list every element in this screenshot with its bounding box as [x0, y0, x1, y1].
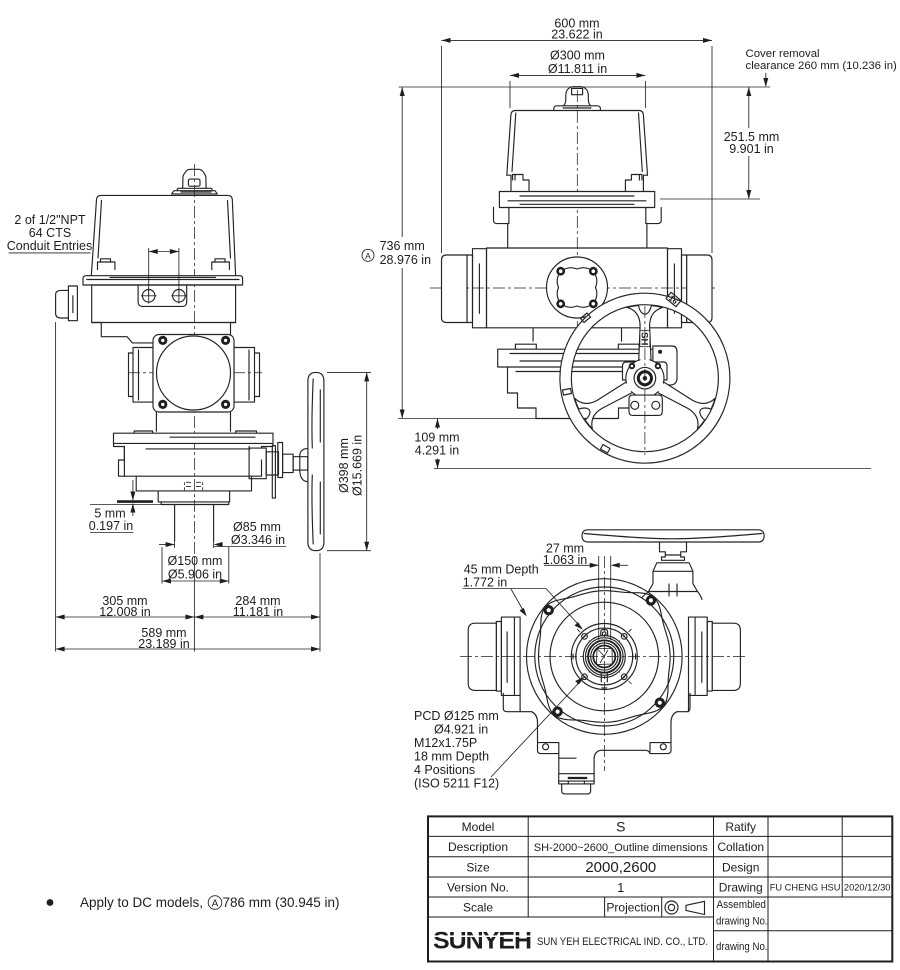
svg-text:2 of 1/2"NPT: 2 of 1/2"NPT [14, 213, 86, 227]
main housing circles [527, 579, 683, 735]
dim 85 [174, 541, 176, 548]
left conduit boss [68, 286, 77, 321]
dashed key area [184, 482, 202, 491]
4 cover bolts [544, 605, 554, 615]
right cylinder [689, 617, 708, 695]
gearbox body [114, 443, 273, 476]
150 spigot [161, 502, 230, 505]
svg-text:Ø300 mm: Ø300 mm [550, 49, 605, 63]
flange band under bell [83, 276, 243, 285]
keyway at top [601, 630, 608, 642]
svg-text:Model: Model [462, 820, 495, 834]
svg-text:Ratify: Ratify [725, 820, 756, 834]
bottom left foot [503, 693, 531, 711]
svg-text:Ø5.906 in: Ø5.906 in [168, 568, 222, 582]
svg-text:Scale: Scale [463, 901, 493, 915]
vertical centerline [603, 556, 605, 771]
dim 600mm [441, 46, 443, 253]
svg-text:1: 1 [617, 880, 624, 895]
svg-text:18 mm Depth: 18 mm Depth [414, 750, 489, 764]
neck below square flange [156, 412, 230, 431]
svg-text:clearance 260 mm (10.236 in): clearance 260 mm (10.236 in) [746, 60, 898, 72]
rim notches [581, 313, 591, 323]
svg-text:PCD Ø125 mm: PCD Ø125 mm [414, 709, 499, 723]
svg-text:9.901 in: 9.901 in [729, 142, 774, 156]
top plug [564, 87, 591, 106]
BOTTOM VIEW [414, 530, 764, 794]
svg-text:Assembled: Assembled [717, 899, 767, 911]
svg-text:11.181 in: 11.181 in [233, 605, 284, 619]
svg-text:109 mm: 109 mm [414, 431, 459, 445]
keyway bottom tab [601, 672, 607, 682]
16 mark on rim [665, 292, 681, 307]
handwheel rim [560, 293, 730, 463]
centerline vertical [193, 164, 195, 560]
svg-text:1.772 in: 1.772 in [463, 576, 508, 590]
dim 398 vertical [327, 371, 371, 373]
svg-text:(ISO 5211 F12): (ISO 5211 F12) [414, 777, 499, 791]
dim 305 / 284 [55, 322, 57, 652]
flange corner bolts [158, 336, 167, 345]
svg-text:Ø3.346 in: Ø3.346 in [231, 533, 285, 547]
cover removal clearance line [399, 86, 770, 88]
dim 150 [161, 547, 163, 584]
svg-text:Design: Design [722, 860, 759, 874]
handwheel mounting boss behind [653, 346, 677, 385]
conduit bolts [142, 290, 155, 303]
svg-text:A: A [212, 899, 219, 910]
ISO square mounting flange [153, 335, 234, 413]
NOTE [47, 895, 340, 910]
top plug [183, 169, 206, 188]
5mm thick pointer line [117, 500, 153, 503]
svg-text:FU CHENG HSU: FU CHENG HSU [770, 883, 841, 893]
right cylinder section [668, 249, 682, 328]
RIGHT TOP VIEW [362, 17, 897, 469]
projection symbol [665, 901, 678, 914]
wheel spokes [575, 306, 715, 429]
svg-text:SH: SH [638, 332, 649, 345]
bottom right foot [677, 693, 690, 711]
svg-text:Ø4.921 in: Ø4.921 in [434, 723, 488, 737]
svg-text:64 CTS: 64 CTS [29, 226, 71, 240]
svg-text:Ø150 mm: Ø150 mm [168, 554, 223, 568]
ISO flange boss [571, 624, 637, 690]
conduit entry plate [138, 286, 187, 307]
svg-text:M12x1.75P: M12x1.75P [414, 736, 477, 750]
bottom stub [559, 774, 594, 781]
tick marks on PCD circle [573, 654, 636, 688]
svg-text:SUNYEH: SUNYEH [433, 928, 531, 955]
svg-text:SH-2000~2600_Outline dimension: SH-2000~2600_Outline dimensions [534, 842, 708, 854]
svg-text:Description: Description [448, 840, 508, 854]
svg-text:drawing No.: drawing No. [716, 941, 768, 953]
bracket plate behind hub [623, 362, 668, 380]
main body [92, 285, 236, 323]
gearbox top flange [114, 433, 274, 443]
svg-text:0.197 in: 0.197 in [89, 519, 134, 533]
svg-text:Cover removal: Cover removal [746, 48, 820, 60]
inner housing circle [550, 602, 659, 711]
svg-text:Drawing: Drawing [719, 881, 763, 895]
svg-text:Projection: Projection [606, 901, 659, 915]
right side boss of square flange [234, 348, 255, 403]
svg-text:Apply to DC models,: Apply to DC models, [80, 895, 203, 910]
lower bracket plate [629, 395, 662, 415]
svg-text:Conduit Entries: Conduit Entries [7, 239, 92, 253]
svg-text:S: S [616, 818, 625, 834]
svg-text:23.622 in: 23.622 in [551, 28, 602, 42]
wheel dashed centerline [644, 306, 646, 455]
85 shaft [175, 505, 214, 542]
svg-text:Ø85 mm: Ø85 mm [233, 520, 281, 534]
bolts beside hub [629, 363, 635, 369]
svg-text:45 mm Depth: 45 mm Depth [464, 563, 539, 577]
vertical centerline [576, 90, 578, 346]
svg-text:28.976 in: 28.976 in [380, 253, 431, 267]
svg-text:Size: Size [466, 860, 490, 874]
svg-text:Ø11.811 in: Ø11.811 in [548, 62, 607, 76]
bell bolt tabs [98, 259, 115, 270]
svg-text:Collation: Collation [717, 840, 764, 854]
svg-text:drawing No.: drawing No. [716, 916, 768, 928]
dim 300mm [509, 81, 511, 108]
bell bolt tabs [507, 175, 529, 191]
LEFT VIEW [7, 164, 371, 652]
dim 109 [434, 468, 871, 470]
dim 251.5 [660, 198, 760, 200]
handwheel edge-on [308, 372, 324, 550]
horizontal centerline [430, 287, 718, 289]
gearbox top tabs [134, 431, 152, 433]
dim 589 [56, 648, 320, 650]
pilot circle [157, 336, 231, 410]
M12 bolt positions [577, 629, 631, 684]
svg-text:4 Positions: 4 Positions [414, 763, 475, 777]
svg-text:Ø398 mm: Ø398 mm [337, 438, 351, 493]
svg-text:2020/12/30: 2020/12/30 [844, 883, 891, 893]
wheel stem [660, 542, 687, 560]
gearbox neck [533, 328, 621, 341]
gearbox flange [498, 349, 657, 367]
left cylinder [501, 617, 520, 695]
dim 5mm [132, 480, 134, 500]
svg-text:736 mm: 736 mm [380, 239, 425, 253]
5mm extension thin line [90, 504, 161, 506]
declutch lever [272, 446, 275, 499]
dim: conduit spacing [148, 248, 150, 296]
center flange circle with 4 bolts [547, 257, 608, 318]
gearbox side shaft housing [249, 448, 266, 479]
body lower profile steps [92, 323, 153, 343]
svg-text:4.291 in: 4.291 in [415, 444, 460, 458]
gearbox lower steps [136, 460, 261, 502]
left step below flange [494, 208, 509, 248]
gearbox flange tabs [515, 344, 639, 349]
svg-text:Ø15.669 in: Ø15.669 in [351, 435, 365, 496]
SH text on spoke [638, 331, 650, 347]
svg-text:2000,2600: 2000,2600 [585, 859, 656, 876]
svg-text:Version No.: Version No. [447, 881, 509, 895]
gearbox body [508, 367, 648, 393]
center rings [583, 636, 625, 678]
left cylinder section [473, 249, 487, 328]
hub [634, 367, 656, 389]
right step below flange [646, 208, 661, 248]
cover flange [499, 192, 654, 208]
handwheel bar (edge view) [582, 530, 764, 542]
svg-text:23.189 in: 23.189 in [138, 637, 189, 651]
svg-text:786 mm (30.945 in): 786 mm (30.945 in) [223, 895, 340, 910]
svg-text:12.008 in: 12.008 in [99, 605, 150, 619]
scalloped cover ring [539, 591, 671, 723]
bottom flange with ears [532, 712, 559, 774]
centerline horizontal through square flange [128, 372, 262, 374]
horizontal centerline [460, 656, 748, 658]
main body [487, 248, 668, 328]
svg-text:SUN YEH ELECTRICAL IND. CO., L: SUN YEH ELECTRICAL IND. CO., LTD. [537, 936, 708, 948]
motor bell cover [91, 195, 236, 277]
left side boss of square flange [133, 348, 153, 403]
27mm dim lines [598, 556, 600, 640]
dim 736 [401, 87, 403, 237]
bell cover [507, 111, 648, 176]
TABLE [428, 816, 892, 961]
svg-text:A: A [365, 251, 371, 261]
